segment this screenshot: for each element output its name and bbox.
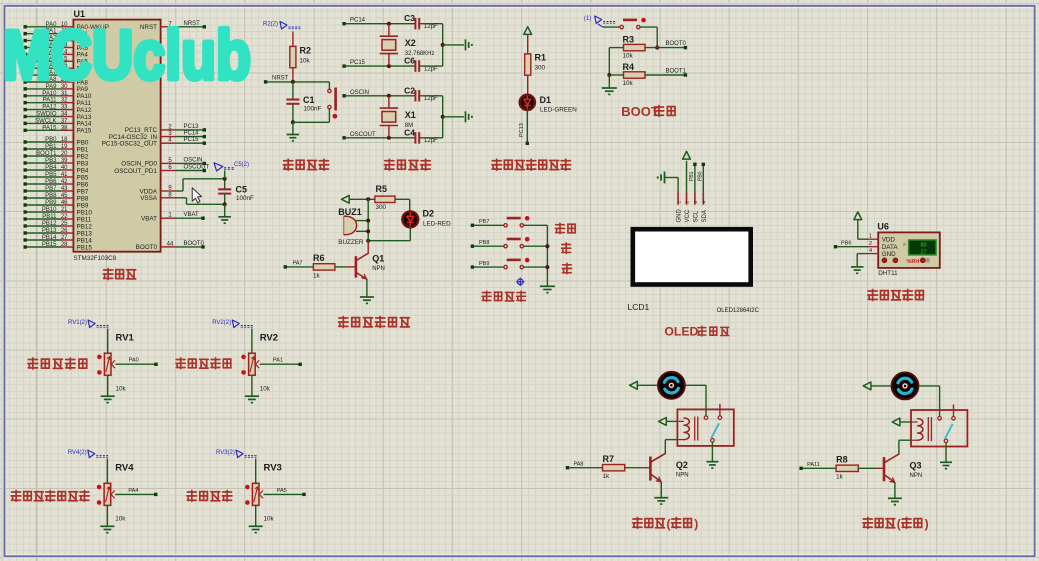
svg-text:PB14: PB14 (42, 235, 57, 241)
svg-text:PB0: PB0 (77, 139, 89, 146)
svg-text:C3: C3 (404, 13, 415, 23)
svg-text:OSCIN: OSCIN (350, 90, 369, 96)
svg-text:OLED: OLED (664, 325, 698, 339)
svg-text:): ) (694, 517, 698, 531)
svg-text:): ) (925, 517, 929, 531)
svg-text:R4: R4 (623, 62, 635, 72)
svg-text:SWDIO: SWDIO (36, 112, 57, 118)
svg-text:10k: 10k (264, 516, 275, 523)
svg-text:OSCOUT_PD1: OSCOUT_PD1 (114, 168, 157, 175)
svg-text:20: 20 (61, 151, 68, 157)
svg-text:BUZZER: BUZZER (338, 239, 364, 246)
svg-text:>: > (903, 243, 907, 249)
svg-text:PB13: PB13 (42, 228, 57, 234)
svg-text:X2: X2 (405, 38, 416, 48)
svg-text:10k: 10k (115, 516, 126, 523)
svg-text:PA4: PA4 (128, 488, 138, 494)
svg-text:PB3: PB3 (45, 158, 57, 164)
svg-text:(: ( (667, 517, 671, 531)
svg-text:U6: U6 (877, 222, 889, 232)
svg-text:32.768KHz: 32.768KHz (405, 51, 435, 57)
svg-text:LCD1: LCD1 (628, 302, 650, 312)
svg-text:PB6: PB6 (77, 181, 89, 188)
svg-text:1: 1 (869, 234, 872, 240)
svg-text:43: 43 (61, 186, 68, 192)
svg-text:PB8: PB8 (479, 240, 489, 246)
svg-text:PB1: PB1 (689, 171, 695, 181)
svg-text:PB8: PB8 (45, 193, 57, 199)
svg-text:R1: R1 (535, 53, 547, 63)
svg-text:OSCIN: OSCIN (184, 157, 203, 163)
svg-text:PB6: PB6 (45, 179, 57, 185)
svg-text:10k: 10k (260, 386, 271, 393)
svg-text:PA11: PA11 (807, 462, 820, 468)
svg-text:PA8: PA8 (574, 461, 584, 467)
svg-text:10k: 10k (300, 58, 311, 65)
svg-text:41: 41 (61, 172, 68, 178)
svg-text:PB9: PB9 (77, 202, 89, 209)
svg-text:VDD: VDD (882, 237, 896, 244)
svg-text:OLED12864I2C: OLED12864I2C (717, 308, 760, 314)
svg-text:26: 26 (61, 228, 68, 234)
svg-text:Q3: Q3 (910, 461, 922, 471)
svg-text:1k: 1k (313, 272, 321, 279)
svg-text:40: 40 (61, 165, 68, 171)
svg-text:DHT11: DHT11 (878, 270, 898, 277)
svg-text:R3: R3 (623, 35, 635, 45)
svg-text:OSCIN_PD0: OSCIN_PD0 (121, 161, 157, 168)
svg-text:NPN: NPN (910, 473, 923, 479)
svg-text:PB3: PB3 (77, 160, 89, 167)
svg-text:VBAT: VBAT (184, 212, 200, 218)
svg-text:R2: R2 (300, 46, 312, 56)
svg-text:(: ( (897, 517, 901, 531)
svg-text:4: 4 (869, 248, 872, 254)
svg-text:X1: X1 (405, 110, 416, 120)
svg-text:42: 42 (61, 179, 68, 185)
svg-text:PB9: PB9 (479, 261, 489, 267)
svg-text:34: 34 (61, 112, 68, 118)
svg-text:PA15: PA15 (77, 128, 92, 135)
svg-text:BOOT: BOOT (621, 104, 659, 119)
svg-text:C6: C6 (404, 56, 415, 66)
svg-text:12pF: 12pF (424, 96, 438, 102)
svg-text:21: 21 (61, 207, 68, 213)
svg-text:BOOT1: BOOT1 (666, 68, 687, 74)
svg-text:PB10: PB10 (77, 209, 93, 216)
svg-text:27: 27 (920, 249, 926, 255)
svg-text:28: 28 (61, 242, 68, 248)
svg-text:PA5: PA5 (277, 488, 287, 494)
svg-text:2: 2 (869, 241, 872, 247)
svg-text:39: 39 (61, 158, 68, 164)
svg-text:PB1: PB1 (77, 146, 89, 153)
svg-text:PC15-OSC32_OUT: PC15-OSC32_OUT (102, 141, 157, 148)
svg-text:PC14: PC14 (350, 18, 366, 24)
svg-text:PB7: PB7 (45, 186, 57, 192)
svg-text:12pF: 12pF (424, 138, 438, 144)
svg-text:PB4: PB4 (45, 165, 57, 171)
svg-text:PB11: PB11 (42, 214, 57, 220)
svg-text:RV1(2): RV1(2) (68, 320, 87, 326)
svg-text:300: 300 (376, 204, 387, 211)
svg-text:33: 33 (61, 105, 68, 111)
svg-text:38: 38 (61, 125, 68, 131)
svg-text:PB15: PB15 (77, 244, 93, 251)
svg-text:RV2: RV2 (260, 333, 278, 344)
svg-text:1k: 1k (603, 473, 611, 480)
svg-text:PA0: PA0 (129, 358, 139, 364)
svg-text:46: 46 (61, 200, 68, 206)
svg-text:1k: 1k (836, 473, 844, 480)
svg-text:C1: C1 (303, 95, 315, 105)
svg-text:R8: R8 (836, 454, 848, 464)
svg-text:RV4(2): RV4(2) (68, 450, 87, 456)
svg-text:LED-GREEN: LED-GREEN (540, 107, 577, 114)
svg-text:25: 25 (61, 221, 68, 227)
svg-text:PB13: PB13 (77, 230, 93, 237)
svg-text:RV3: RV3 (264, 463, 282, 474)
svg-text:BOOT1: BOOT1 (36, 151, 57, 157)
svg-text:VBAT: VBAT (141, 216, 157, 223)
svg-text:BOOT0: BOOT0 (136, 244, 158, 251)
svg-text:NPN: NPN (372, 266, 385, 272)
svg-text:D2: D2 (423, 209, 435, 219)
svg-text:PB0: PB0 (45, 137, 57, 143)
svg-text:C5: C5 (236, 185, 248, 195)
svg-text:PB7: PB7 (77, 188, 89, 195)
svg-text:PB5: PB5 (45, 172, 57, 178)
svg-text:PC15: PC15 (350, 60, 366, 66)
svg-text:300: 300 (535, 65, 546, 72)
svg-text:PB12: PB12 (77, 223, 93, 230)
svg-text:SCL: SCL (694, 210, 700, 222)
svg-text:45: 45 (61, 193, 68, 199)
svg-text:R6: R6 (313, 253, 325, 263)
svg-text:VSSA: VSSA (140, 195, 158, 202)
svg-text:PB2: PB2 (77, 153, 89, 160)
svg-text:27: 27 (61, 235, 68, 241)
svg-text:PC15: PC15 (184, 137, 200, 143)
svg-text:PB4: PB4 (77, 167, 89, 174)
svg-text:RV4: RV4 (115, 463, 134, 474)
svg-text:RV2(2): RV2(2) (212, 320, 231, 326)
svg-text:PB11: PB11 (77, 216, 92, 223)
svg-text:D1: D1 (540, 95, 552, 105)
svg-text:VCC: VCC (685, 209, 691, 222)
svg-text:PB7: PB7 (479, 219, 489, 225)
svg-text:%RH: %RH (907, 259, 920, 265)
svg-text:PA15: PA15 (42, 125, 57, 131)
svg-text:PB8: PB8 (77, 195, 89, 202)
svg-text:PC14: PC14 (184, 131, 200, 137)
svg-text:(1): (1) (584, 16, 591, 22)
svg-text:PA11: PA11 (43, 98, 57, 104)
svg-text:Q2: Q2 (676, 460, 688, 470)
svg-text:C5(2): C5(2) (234, 162, 249, 168)
svg-text:8M: 8M (405, 123, 413, 129)
svg-text:R2(2): R2(2) (263, 22, 278, 28)
svg-text:22: 22 (61, 214, 68, 220)
svg-text:MCUclub: MCUclub (3, 16, 251, 94)
svg-text:1: 1 (676, 201, 682, 204)
svg-text:12pF: 12pF (424, 24, 438, 30)
svg-text:PC13: PC13 (519, 123, 525, 137)
svg-text:PB12: PB12 (42, 221, 57, 227)
svg-text:PB10: PB10 (42, 207, 57, 213)
svg-text:18: 18 (61, 137, 68, 143)
svg-text:RV1: RV1 (116, 333, 135, 344)
svg-text:BUZ1: BUZ1 (338, 207, 362, 217)
svg-text:PB6: PB6 (841, 240, 851, 246)
svg-text:OSCOUT: OSCOUT (350, 132, 376, 138)
svg-text:SDA: SDA (702, 210, 708, 222)
svg-text:PA1: PA1 (273, 358, 283, 364)
svg-text:10k: 10k (116, 386, 127, 393)
svg-text:R5: R5 (376, 184, 388, 194)
svg-text:PB15: PB15 (42, 242, 57, 248)
svg-text:4: 4 (702, 201, 708, 204)
svg-text:PB1: PB1 (45, 144, 57, 150)
svg-text:19: 19 (61, 144, 68, 150)
svg-text:NRST: NRST (272, 76, 289, 82)
svg-text:3: 3 (693, 201, 699, 204)
svg-text:32: 32 (61, 98, 68, 104)
svg-text:80: 80 (920, 243, 926, 249)
svg-text:GND: GND (882, 251, 896, 258)
svg-text:PB9: PB9 (45, 200, 57, 206)
svg-text:10k: 10k (623, 53, 634, 60)
svg-text:44: 44 (167, 241, 174, 247)
svg-text:C2: C2 (404, 85, 415, 95)
svg-text:12pF: 12pF (424, 66, 438, 72)
svg-text:PC13: PC13 (184, 124, 200, 130)
svg-text:PA7: PA7 (293, 261, 303, 267)
svg-text:100nF: 100nF (304, 106, 322, 113)
svg-text:100nF: 100nF (236, 195, 254, 202)
svg-text:PB5: PB5 (77, 174, 89, 181)
svg-text:PB0: PB0 (697, 171, 703, 181)
svg-text:RV3(2): RV3(2) (216, 450, 235, 456)
svg-text:GND: GND (677, 209, 683, 223)
svg-text:BOOT0: BOOT0 (666, 41, 687, 47)
svg-text:10k: 10k (623, 80, 634, 87)
svg-text:Q1: Q1 (372, 254, 384, 264)
svg-text:SWCLK: SWCLK (35, 118, 56, 124)
svg-text:NPN: NPN (676, 472, 689, 478)
svg-text:PA12: PA12 (42, 105, 57, 111)
svg-text:PB14: PB14 (77, 237, 93, 244)
svg-text:2: 2 (685, 201, 691, 204)
svg-text:37: 37 (61, 118, 68, 124)
svg-text:R7: R7 (603, 454, 615, 464)
svg-text:LED-RED: LED-RED (423, 221, 451, 228)
svg-text:STM32F103C8: STM32F103C8 (74, 255, 117, 262)
